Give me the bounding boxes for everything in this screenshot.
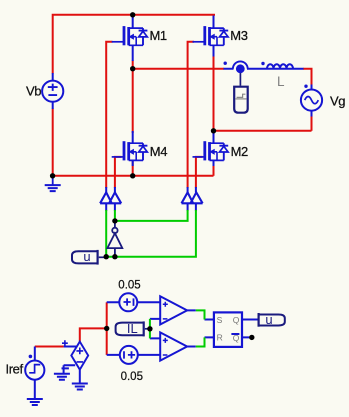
svg-text:u: u bbox=[265, 312, 272, 327]
svg-text:0.05: 0.05 bbox=[118, 279, 140, 291]
svg-text:u: u bbox=[83, 249, 90, 264]
svg-text:M3: M3 bbox=[230, 28, 247, 43]
svg-text:R: R bbox=[217, 332, 223, 342]
svg-text:L: L bbox=[277, 74, 285, 89]
svg-text:M1: M1 bbox=[150, 28, 167, 43]
svg-text:Q: Q bbox=[233, 315, 240, 325]
svg-text:M2: M2 bbox=[231, 144, 248, 159]
svg-text:IL: IL bbox=[127, 321, 138, 336]
svg-text:0.05: 0.05 bbox=[121, 371, 143, 383]
svg-text:Vb: Vb bbox=[26, 84, 41, 99]
svg-text:Iref: Iref bbox=[6, 361, 24, 376]
svg-text:M4: M4 bbox=[150, 144, 167, 159]
svg-text:S: S bbox=[217, 315, 223, 325]
svg-text:Vg: Vg bbox=[330, 93, 345, 108]
